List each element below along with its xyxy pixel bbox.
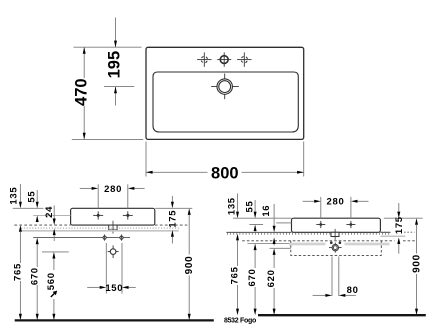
dim 55 / 670 line	[36, 190, 38, 202]
extension line top edge	[74, 46, 142, 48]
ext small line 16	[276, 222, 291, 224]
ext basin top (wall, left side)	[233, 217, 292, 219]
dim 135 / 765 line	[19, 184, 21, 202]
ext 280 right	[127, 184, 129, 208]
supply connection right	[339, 241, 342, 244]
ext basin top right	[155, 207, 192, 209]
wall view: basin body	[292, 218, 381, 232]
extension line bottom edge	[72, 138, 143, 140]
dim 175 (front)	[171, 196, 173, 202]
ext 280 wall right	[350, 197, 352, 218]
dim 195	[115, 18, 117, 48]
dim 135 / 765 (wall)	[237, 194, 239, 212]
extension line drain axis	[104, 86, 134, 88]
svg-text:765: 765	[13, 263, 24, 281]
svg-text:280: 280	[327, 197, 345, 208]
dashed rim line left	[14, 224, 70, 226]
dim 16 / 620 (wall)	[273, 204, 275, 226]
right fixing hole	[120, 236, 123, 239]
centre tap hole	[217, 59, 231, 61]
extension 150 right	[121, 243, 123, 294]
front view: drain axis tick	[112, 221, 114, 234]
svg-text:175: 175	[394, 216, 405, 234]
dim 24 / 560 line	[53, 206, 55, 219]
left fixing hole	[103, 236, 106, 239]
ext 280 wall left	[320, 197, 322, 218]
front view: left tap hole cross	[93, 214, 103, 216]
console dotted line	[21, 227, 179, 229]
dim 470	[83, 47, 85, 78]
grey shelf lines	[289, 242, 326, 244]
tap axis extension (grey)	[33, 214, 70, 216]
front view: drain tailpiece	[109, 225, 117, 230]
svg-text:135: 135	[8, 187, 19, 205]
plan view: basin outer rim	[146, 47, 304, 139]
console band (grey)	[22, 230, 179, 232]
dim 280 (wall)	[303, 200, 315, 202]
left optional tap hole (dashed crosshair)	[197, 59, 211, 61]
wall view: wall line left	[226, 231, 291, 233]
svg-text:135: 135	[227, 197, 238, 215]
ext 280 left	[97, 184, 99, 208]
svg-text:620: 620	[266, 269, 277, 287]
dim 900 (wall)	[415, 218, 418, 225]
svg-text:80: 80	[347, 285, 359, 296]
wall hatching	[228, 233, 389, 235]
wall view: tailpiece	[331, 232, 339, 236]
svg-text:195: 195	[106, 51, 124, 79]
ext 80 left	[331, 257, 333, 297]
dotted wall continuation right	[381, 231, 391, 233]
svg-text:150: 150	[105, 283, 123, 294]
dim 80	[313, 294, 326, 296]
plan view: basin inner bowl	[153, 72, 298, 132]
adjustable arrow glyph	[51, 293, 55, 297]
dim 800	[146, 171, 208, 173]
dim 55 / 670 (wall)	[254, 200, 256, 212]
svg-text:16: 16	[261, 205, 272, 217]
fixing holes line	[33, 237, 130, 239]
extension line right corner down	[303, 142, 305, 177]
svg-text:24: 24	[44, 206, 55, 218]
wall view: left tap hole cross	[316, 224, 325, 226]
extension line left corner down	[145, 142, 147, 177]
extension 560 level	[42, 251, 69, 253]
svg-text:55: 55	[26, 191, 37, 203]
svg-text:900: 900	[411, 254, 422, 273]
drain hole with overflow	[211, 86, 239, 88]
dotted wall continuation right 2	[404, 231, 415, 233]
dashed console box	[291, 241, 382, 256]
dashed console line full width	[242, 240, 394, 242]
svg-text:175: 175	[168, 210, 179, 228]
ext tap axis (wall)	[249, 224, 263, 226]
front view: right tap hole cross	[123, 214, 133, 216]
grey band right of basin	[380, 235, 405, 237]
svg-text:670: 670	[247, 269, 258, 287]
extension 150 left	[105, 243, 107, 294]
dim 280 (front)	[80, 187, 92, 189]
dim 175 (wall)	[398, 203, 400, 212]
front view: basin body	[71, 208, 155, 225]
ext 80 right	[338, 257, 340, 297]
svg-text:560: 560	[46, 272, 57, 290]
dim 150	[87, 286, 100, 288]
floor line (wall view)	[258, 314, 426, 316]
extension basin top left (front)	[13, 207, 44, 209]
svg-text:470: 470	[73, 78, 91, 106]
wall drain double circle	[329, 247, 342, 249]
wall view: right tap hole cross	[346, 224, 355, 226]
svg-text:280: 280	[104, 184, 122, 195]
floor line (front view)	[15, 319, 214, 321]
supply connection left	[330, 241, 333, 244]
svg-text:900: 900	[184, 256, 195, 275]
svg-text:8532 Fogo: 8532 Fogo	[224, 318, 256, 325]
right optional tap hole (dashed crosshair)	[237, 59, 251, 61]
ext 670 level	[248, 243, 290, 245]
front drain circle	[108, 251, 119, 253]
svg-text:765: 765	[230, 266, 241, 284]
dashed rim line right	[155, 224, 188, 226]
dim 900 (front)	[188, 208, 191, 215]
ext basin top right (wall)	[384, 217, 423, 219]
svg-text:800: 800	[211, 165, 239, 183]
ext 620 level	[270, 247, 291, 249]
svg-text:55: 55	[244, 201, 255, 213]
wall view: wall line right	[380, 231, 390, 233]
svg-text:670: 670	[29, 267, 40, 285]
